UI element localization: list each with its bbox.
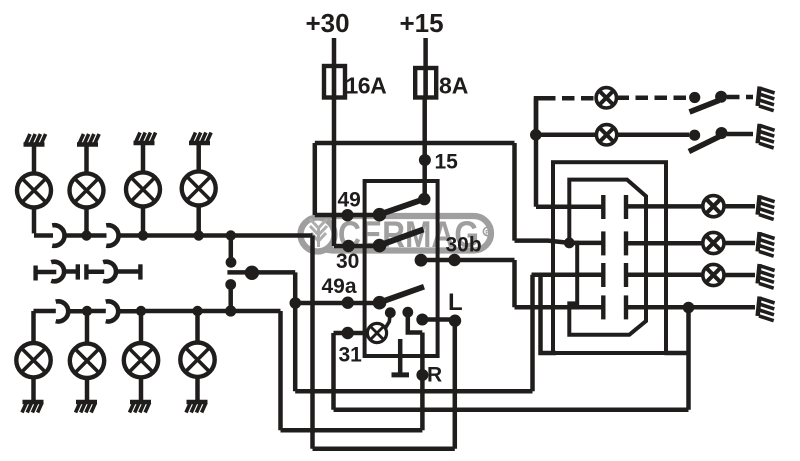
wire bottom bus seg6 xyxy=(198,309,231,314)
wire bottom bus seg3 xyxy=(87,309,106,314)
fuse F1 wire through xyxy=(332,66,337,98)
wire bottom bus to line C xyxy=(231,311,281,430)
node 49a blade pivot xyxy=(373,296,387,310)
right block outer box xyxy=(553,162,666,353)
fuse F2 wire through xyxy=(423,68,428,98)
wire R vertical xyxy=(420,333,425,431)
lamp B2 ground xyxy=(76,402,98,413)
lamp B2 xyxy=(85,311,90,344)
node 30b left xyxy=(415,254,428,267)
inner flasher box xyxy=(365,181,438,356)
connector arc top bus 2 xyxy=(106,225,118,246)
node bottom bus lamp B3 xyxy=(136,306,146,316)
wire lamp L1 top lead xyxy=(32,145,37,174)
wire row3 out to lamp xyxy=(626,273,703,278)
wire +30 feed xyxy=(332,38,337,66)
node top bus hazard branch xyxy=(226,230,236,240)
node 30 blade contact xyxy=(373,239,387,253)
node top bus lamp L2 xyxy=(81,230,91,240)
wire terminal 31 line xyxy=(334,333,368,410)
hazard switch fixed contact upper xyxy=(229,236,234,263)
node R terminal xyxy=(416,369,428,381)
wire solid row lamp to switch xyxy=(617,133,689,138)
wire +15 feed xyxy=(423,38,428,68)
contact stub left of 49a switch xyxy=(385,307,396,318)
wire L line xyxy=(422,317,455,322)
wire top bus seg5 xyxy=(143,233,199,238)
watermark registered mark xyxy=(483,227,491,235)
hazard switch fixed contact lower xyxy=(225,279,236,290)
lamp B4 ground xyxy=(186,402,208,413)
pilot lamp in flasher xyxy=(367,323,386,342)
ground row4 xyxy=(758,297,775,321)
wire solid row switch to ground xyxy=(727,132,753,137)
connector arc bottom bus 2 xyxy=(106,301,119,321)
node 49a terminal xyxy=(342,297,354,309)
wire lamp L2 top lead xyxy=(84,145,89,174)
svg-text:31: 31 xyxy=(339,344,363,367)
lamp B3 xyxy=(139,311,144,343)
wire bottom bus seg1 xyxy=(34,309,56,314)
wire lamp L4 top lead xyxy=(196,143,201,171)
wire lamp L4 to bus xyxy=(196,205,201,235)
watermark CERMAG logo stadium xyxy=(315,216,491,251)
connector pins right column xyxy=(624,195,628,319)
wire row4 junction down xyxy=(686,308,691,410)
lamp B1 ground xyxy=(22,402,44,413)
switch blade 30-30b xyxy=(380,229,424,245)
lamp L3 top ground xyxy=(134,133,156,144)
lamp L2 xyxy=(70,173,104,207)
node 49 blade contact xyxy=(373,208,387,222)
node 15 terminal xyxy=(419,154,431,166)
wire line A hazard to right block xyxy=(295,389,532,394)
ground dashed row xyxy=(758,87,775,111)
node 49 terminal xyxy=(341,209,353,221)
ground row3 xyxy=(758,264,775,288)
svg-text:+15: +15 xyxy=(400,8,444,38)
wire lamp L3 top lead xyxy=(141,143,146,172)
wire top bus seg2 xyxy=(64,233,87,238)
wire line D to L xyxy=(313,321,455,449)
relay box left edge xyxy=(313,143,318,215)
lamp B4 xyxy=(195,311,200,343)
svg-text:30b: 30b xyxy=(446,234,482,257)
wire row3 to block bottom edge xyxy=(541,275,557,353)
node bottom bus lamp B4 xyxy=(192,306,202,316)
lamp L1 top ground xyxy=(24,134,46,145)
relay box right edge xyxy=(512,143,517,241)
wire dashed hazard row xyxy=(543,96,596,101)
node hazard movable contact xyxy=(245,266,259,280)
wire hazard dashed supply corner xyxy=(536,98,543,135)
connector pair middle stub row xyxy=(36,262,141,282)
svg-text:L: L xyxy=(448,289,463,316)
wire terminal 49 line xyxy=(315,213,379,218)
wire top bus to L-feed corner xyxy=(231,236,313,449)
node top bus lamp L4 xyxy=(194,230,204,240)
wire top bus seg4 xyxy=(118,233,143,238)
svg-text:15: 15 xyxy=(435,151,459,174)
lamp L1 xyxy=(17,173,51,207)
lamp B1 bottom xyxy=(31,311,36,343)
wire dashed row lamp to switch xyxy=(617,96,690,101)
wire row1 lamp to ground xyxy=(724,204,755,209)
svg-text:R: R xyxy=(485,229,490,236)
node bottom bus hazard branch xyxy=(225,305,236,316)
fuse F1 16A body xyxy=(324,66,345,98)
ground row2 xyxy=(758,232,775,256)
ground row1 xyxy=(758,195,775,219)
wire row2 out to lamp xyxy=(626,241,703,246)
svg-text:49: 49 xyxy=(338,189,361,212)
node 30 terminal xyxy=(342,240,354,252)
svg-text:8A: 8A xyxy=(439,73,468,99)
fuse F2 8A body xyxy=(415,68,436,98)
wire terminal 30b line xyxy=(422,260,515,307)
node top bus lamp L3 xyxy=(138,230,148,240)
wire bottom bus seg2 xyxy=(67,309,87,314)
svg-text:49a: 49a xyxy=(322,275,357,298)
connector pins left column xyxy=(601,195,605,319)
wire hazard output down xyxy=(293,272,298,391)
wire top bus seg3 xyxy=(87,233,107,238)
wire row3 lamp to ground xyxy=(724,273,755,278)
svg-text:+30: +30 xyxy=(306,8,350,38)
wire top bus seg6 xyxy=(199,233,231,238)
hazard switch movable bar xyxy=(227,270,295,275)
wire 49a line xyxy=(295,301,379,306)
wire line C to R xyxy=(281,428,423,433)
wire lamp L1 to bus xyxy=(34,207,53,235)
switch blade 15-49 xyxy=(379,199,424,215)
lamp right row1 xyxy=(703,196,724,217)
node solid row branch xyxy=(530,129,542,141)
connector arc top bus 1 xyxy=(52,225,64,246)
wire row3 feed from line A xyxy=(532,275,604,392)
connector arc bottom bus 1 xyxy=(56,301,69,321)
node 15 blade pivot xyxy=(418,193,430,205)
lamp L2 top ground xyxy=(77,134,99,145)
lamp right row3 xyxy=(703,264,724,285)
wire row4 out to ground xyxy=(626,305,755,310)
node 49a branch xyxy=(290,297,302,309)
right block connector outline xyxy=(569,180,646,335)
wire block bottom edge extension xyxy=(665,351,689,356)
wire fuse F1 to terminal 30 xyxy=(332,98,337,247)
ground solid row xyxy=(758,124,775,148)
node bottom bus lamp B2 xyxy=(82,306,92,316)
hazard lamp dashed row xyxy=(596,88,616,108)
lamp L4 xyxy=(182,171,216,205)
wire 49 supply to right block row2 xyxy=(515,241,604,243)
svg-text:30: 30 xyxy=(336,250,359,273)
wire row1 feed xyxy=(536,205,603,210)
wire dashed row switch to ground xyxy=(727,95,753,100)
wire row1 out to lamp xyxy=(626,204,703,209)
wire bottom bus seg5 xyxy=(141,309,198,314)
wire hazard solid feed vertical xyxy=(534,98,539,207)
node row2 joint xyxy=(564,238,575,249)
wire lamp L2 to bus xyxy=(84,207,89,235)
wire terminal 30 line xyxy=(334,244,379,249)
flasher pendulum xyxy=(398,339,403,374)
watermark wheat glyph xyxy=(310,219,327,247)
wire lamp L3 to bus xyxy=(141,206,146,235)
node L inner xyxy=(416,314,428,326)
watermark logo circle xyxy=(301,218,335,252)
node L terminal xyxy=(449,315,461,327)
wire bottom bus seg4 xyxy=(117,309,141,314)
lamp right row2 xyxy=(703,232,724,253)
contact stub right of 49a switch xyxy=(402,307,413,318)
lamp L4 top ground xyxy=(189,133,211,144)
hazard pilot switch dashed row xyxy=(689,92,700,103)
lamp L3 xyxy=(126,172,160,206)
switch blade 49a xyxy=(379,287,424,303)
wire solid pilot row xyxy=(536,133,597,138)
wire row4 feed from 30b xyxy=(515,305,604,310)
wire row2 lamp to ground xyxy=(724,241,755,246)
node 30b terminal xyxy=(448,254,460,266)
wire line B 31 to ground net xyxy=(334,408,689,413)
node 31 terminal xyxy=(342,327,354,339)
node row4 ground junction xyxy=(683,302,695,314)
svg-text:R: R xyxy=(427,364,442,387)
relay box top edge xyxy=(315,141,515,146)
lamp B3 ground xyxy=(130,402,152,413)
pilot lamp solid row xyxy=(596,125,616,145)
wire 15 feed into relay xyxy=(422,98,427,200)
svg-text:16A: 16A xyxy=(346,73,387,99)
pilot switch solid row xyxy=(689,130,700,141)
